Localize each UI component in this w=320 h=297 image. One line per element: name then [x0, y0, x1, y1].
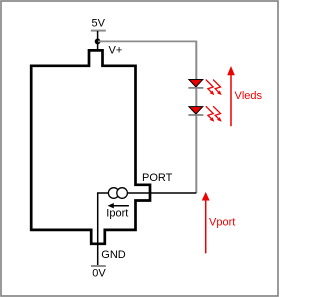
node junction dot: [95, 39, 101, 45]
svg-text:Vleds: Vleds: [235, 90, 263, 102]
arrow Iport (pointing left): [113, 205, 129, 207]
LED D2 emission arrow b: [213, 106, 220, 118]
svg-text:Vport: Vport: [209, 216, 235, 228]
LED D2: [189, 107, 203, 114]
LED D2 cathode bar: [188, 114, 203, 116]
0V ground rail bar: [91, 265, 106, 267]
arrow Vleds (pointing up): [230, 75, 232, 127]
chip outline U1 with V+, PORT, GND pin tabs: [31, 50, 150, 243]
wire LED string vertical (gray): [195, 41, 197, 193]
LED D1: [189, 80, 203, 87]
5V supply rail bar: [91, 30, 106, 32]
wire node to LED string (gray horizontal): [98, 40, 196, 42]
svg-text:Iport: Iport: [106, 208, 128, 220]
svg-text:V+: V+: [109, 45, 123, 57]
svg-text:GND: GND: [101, 249, 126, 261]
svg-text:0V: 0V: [92, 268, 106, 280]
wire current source to GND pin and to PORT pin: [98, 193, 197, 266]
svg-text:PORT: PORT: [142, 172, 173, 184]
arrow Vport (pointing up): [205, 200, 207, 253]
LED D1 emission arrow a: [206, 80, 213, 92]
LED D1 cathode bar: [188, 87, 203, 89]
current source I1 (overlapping circles): [108, 188, 119, 199]
wire 5V rail to V+ pin: [97, 31, 99, 50]
LED D2 emission arrow a: [206, 106, 213, 118]
LED D1 emission arrow b: [213, 80, 220, 92]
svg-text:5V: 5V: [92, 18, 106, 30]
